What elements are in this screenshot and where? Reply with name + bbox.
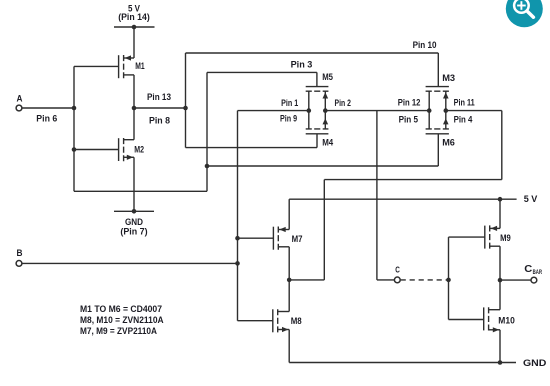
- wire M9 source: [499, 199, 501, 228]
- wire M9 drain down: [499, 246, 501, 280]
- terminal C: [394, 277, 400, 283]
- svg-text:M7: M7: [292, 234, 303, 245]
- transistor M5 (PMOS transmission gate top): [306, 87, 329, 111]
- svg-text:Pin 2: Pin 2: [335, 98, 351, 109]
- wire M9 gate lead: [449, 236, 485, 238]
- wire M10 drain up: [499, 280, 501, 310]
- svg-text:(Pin 14): (Pin 14): [118, 12, 150, 23]
- svg-text:Pin 10: Pin 10: [413, 40, 437, 51]
- wire A bottom route: [74, 190, 207, 192]
- svg-text:Pin 1: Pin 1: [281, 98, 299, 109]
- transistor M3 (PMOS transmission gate top): [426, 87, 449, 111]
- junction Pin11/Pin4 node: [444, 108, 449, 113]
- wire Pin4 to right: [446, 110, 502, 112]
- wire M7 gate lead: [238, 237, 274, 239]
- 5V rail bottom: [289, 198, 516, 200]
- svg-text:M9: M9: [500, 233, 511, 244]
- svg-text:M4: M4: [322, 137, 334, 148]
- wire Bbar to inverter2 output: [289, 279, 324, 281]
- wire A to M6 gate: [207, 165, 438, 167]
- svg-text:M6: M6: [442, 137, 455, 148]
- junction M7 gate: [235, 236, 240, 241]
- junction inverter1 output: [132, 106, 137, 111]
- wire M1 gate lead: [74, 65, 119, 67]
- svg-text:Pin 5: Pin 5: [399, 115, 419, 126]
- 5V supply bar (Pin 14): [114, 26, 155, 28]
- transistor M10 (NMOS): [484, 307, 500, 332]
- wire M8 source to GND rail: [288, 330, 290, 363]
- wire B column vertical: [237, 111, 239, 321]
- terminal CBAR: [531, 277, 537, 283]
- junction node A: [72, 106, 77, 111]
- svg-text:(Pin 7): (Pin 7): [120, 227, 147, 238]
- svg-text:B: B: [17, 248, 23, 259]
- GND rail bottom: [289, 362, 516, 364]
- junction output column: [183, 106, 188, 111]
- svg-text:M1 TO M6 = CD4007: M1 TO M6 = CD4007: [80, 304, 162, 314]
- transistor M4 (NMOS transmission gate bottom): [306, 111, 329, 134]
- wire M2 gate lead: [74, 149, 119, 151]
- wire M6 gate stem: [437, 134, 439, 166]
- svg-text:M8, M10 = ZVN2110A: M8, M10 = ZVN2110A: [80, 315, 164, 325]
- wire output node: [134, 107, 186, 109]
- wire M10 gate lead: [449, 319, 484, 321]
- junction node B: [235, 261, 240, 266]
- wire M7 source: [288, 199, 290, 229]
- wire C column: [376, 111, 378, 280]
- transistor M1 (PMOS): [119, 55, 134, 78]
- junction 5V M9: [498, 197, 503, 202]
- wire M5 gate stem: [316, 72, 318, 86]
- transistor M8 (NMOS): [273, 309, 289, 332]
- wire A input: [22, 107, 74, 109]
- wire M1 drain to output node: [133, 75, 135, 108]
- ground bar (Pin 7): [114, 210, 154, 212]
- svg-text:M3: M3: [442, 73, 455, 84]
- svg-text:Pin 12: Pin 12: [398, 98, 421, 109]
- wire A control column: [206, 72, 208, 191]
- svg-text:BAR: BAR: [533, 269, 542, 276]
- wire C stub: [377, 279, 394, 281]
- wire CBAR: [500, 279, 531, 281]
- wire output column vertical: [185, 53, 187, 148]
- wire M2 drain to output node: [133, 108, 135, 140]
- input terminal B: [16, 261, 22, 267]
- wire Pin 3 (A to M5 gate): [207, 71, 317, 73]
- svg-text:M5: M5: [322, 72, 333, 83]
- wire B input: [22, 262, 238, 264]
- svg-text:Pin 13: Pin 13: [147, 92, 171, 103]
- wire M10 source to GND: [499, 330, 501, 363]
- wire M8 drain up: [288, 280, 290, 312]
- junction Pin2 node: [323, 108, 328, 113]
- wire M9/M10 gate column: [448, 237, 450, 319]
- junction Pin1/Pin9 node: [307, 108, 312, 113]
- transistor M6 (NMOS transmission gate bottom): [426, 111, 449, 134]
- svg-text:M1: M1: [135, 61, 145, 72]
- svg-text:M7, M9 = ZVP2110A: M7, M9 = ZVP2110A: [80, 326, 158, 336]
- wire Pin1 to B column: [238, 110, 309, 112]
- svg-text:Pin 4: Pin 4: [454, 115, 473, 126]
- junction GND: [132, 209, 137, 214]
- svg-text:GND: GND: [523, 358, 546, 369]
- input terminal A: [16, 105, 22, 111]
- wire 5V to M1 source: [133, 27, 135, 58]
- wire right column down: [501, 111, 503, 180]
- junction GND M10: [498, 360, 503, 365]
- svg-text:Pin 9: Pin 9: [280, 114, 297, 125]
- wire Pin2 to Pin12: [325, 110, 429, 112]
- wire Abar to M4 gate: [186, 147, 318, 149]
- wire M7 drain down: [288, 247, 290, 280]
- wire M3 gate stem: [437, 53, 439, 87]
- svg-text:Pin 11: Pin 11: [454, 98, 476, 109]
- transistor M7 (PMOS): [273, 227, 289, 250]
- junction inverter2 output: [287, 278, 292, 283]
- transistor M2 (NMOS): [119, 138, 134, 161]
- junction 5V rail: [132, 25, 137, 30]
- svg-text:A: A: [17, 94, 23, 105]
- junction CBAR node: [498, 278, 503, 283]
- svg-text:M8: M8: [291, 316, 303, 327]
- wire Bbar vertical: [323, 180, 325, 280]
- dashed wire C to CBAR inverter: [401, 279, 449, 281]
- wire M8 gate lead: [238, 320, 273, 322]
- svg-text:Pin 8: Pin 8: [149, 115, 171, 126]
- svg-text:Pin 3: Pin 3: [291, 59, 313, 70]
- wire Pin 10 (Abar to M3 gate): [186, 52, 439, 54]
- svg-text:M10: M10: [498, 316, 515, 327]
- wire M2 source to GND: [133, 157, 135, 211]
- wire Bbar horizontal: [324, 179, 502, 181]
- svg-text:Pin 6: Pin 6: [36, 113, 57, 124]
- wire M4 gate stem: [316, 134, 318, 148]
- transistor M9 (PMOS): [485, 225, 500, 248]
- junction A control to M6: [205, 164, 210, 169]
- junction dashed to gate column: [446, 278, 451, 283]
- svg-text:5 V: 5 V: [524, 194, 538, 205]
- magnifier zoom icon: [506, 0, 543, 27]
- junction M2 gate: [72, 147, 77, 152]
- wire A gate column: [73, 66, 75, 191]
- svg-text:C: C: [395, 265, 400, 274]
- junction Pin12/Pin5 node: [427, 108, 432, 113]
- svg-text:M2: M2: [134, 144, 144, 155]
